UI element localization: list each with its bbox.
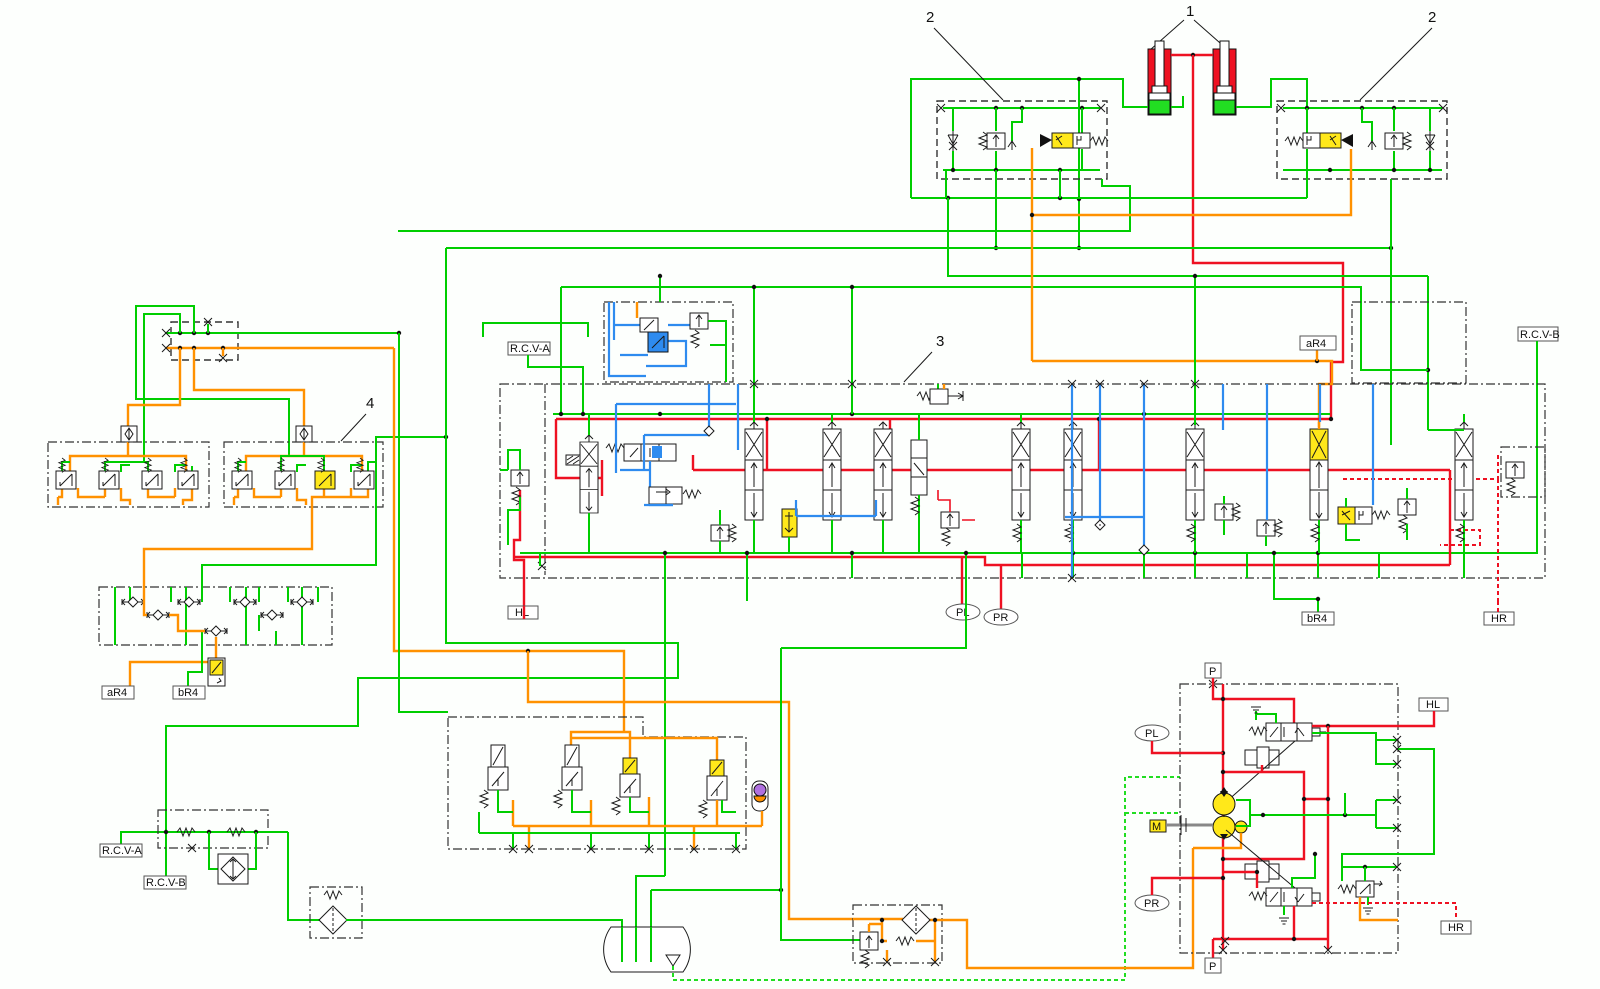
svg-text:aR4: aR4 xyxy=(1306,338,1326,350)
svg-text:4: 4 xyxy=(366,395,374,412)
wire orange pilot pump xyxy=(1193,833,1241,848)
pilot piston lower xyxy=(1226,830,1295,888)
X marks top border xyxy=(1068,380,1148,582)
pilot valve G1 xyxy=(56,458,76,489)
restrictor F1b xyxy=(324,891,342,899)
solenoid box xyxy=(448,717,746,849)
wire green vert x561 xyxy=(560,287,562,414)
wire orange rail y215 xyxy=(1032,148,1351,361)
X red bottom border xyxy=(1219,946,1227,954)
red pr riser xyxy=(1000,565,1002,610)
pump case drain green xyxy=(1236,800,1376,826)
node orange rail dots xyxy=(178,346,182,350)
node x1079 xyxy=(1077,197,1081,201)
spool valve V9 xyxy=(1186,414,1204,553)
node green bus1 dots xyxy=(559,412,563,416)
wire green upper valve out xyxy=(1312,733,1397,740)
blue check small xyxy=(704,426,714,436)
svg-text:PR: PR xyxy=(1144,898,1159,910)
pilot valve G8 xyxy=(354,458,374,489)
pressure switch yellow xyxy=(208,658,225,686)
label 4 pointer xyxy=(341,395,374,441)
filter bypass xyxy=(882,920,939,966)
svg-text:R.C.V-A: R.C.V-A xyxy=(102,845,142,857)
node x1428 y370 xyxy=(1426,368,1430,372)
throttle X ends xyxy=(1277,104,1285,112)
node red pump xyxy=(1302,797,1306,801)
restrictor Z2 xyxy=(227,828,245,836)
sol valve S1 xyxy=(480,745,508,808)
wire green tank link left xyxy=(636,876,665,962)
wire red P top xyxy=(1213,678,1294,950)
green bus1 xyxy=(553,413,1330,415)
red right riser xyxy=(1449,470,1451,565)
label bR4 right xyxy=(1302,612,1334,625)
wire green box2L internals xyxy=(943,108,1100,170)
svg-text:HR: HR xyxy=(1491,613,1507,625)
blue check C1 xyxy=(1095,520,1105,530)
spool valve V5 xyxy=(874,422,892,553)
label aR4 top xyxy=(1300,336,1336,361)
blue pilot horizontals mid xyxy=(796,500,876,516)
label P top xyxy=(1205,663,1221,688)
pilot valve G7 yellow xyxy=(315,458,335,489)
node riser dots xyxy=(752,285,756,289)
node red dots xyxy=(765,417,769,421)
svg-text:R.C.V-B: R.C.V-B xyxy=(1520,329,1560,341)
wire green x781 riser xyxy=(780,648,782,890)
X border g4 xyxy=(1344,793,1346,815)
wire orange shuttle path xyxy=(130,587,216,686)
check valve CV1 xyxy=(948,131,958,151)
oval PL pump xyxy=(1135,725,1223,753)
svg-text:aR4: aR4 xyxy=(107,687,127,699)
filter relief xyxy=(860,924,882,968)
left subblock divider xyxy=(544,384,546,575)
wire red lower valve left xyxy=(1213,872,1294,958)
pilot pair valve V2 xyxy=(606,444,676,505)
shuttle S1 xyxy=(122,597,144,607)
pump upper xyxy=(1213,787,1235,815)
wire green vert x1428 xyxy=(1427,276,1429,430)
shuttle manifold greens xyxy=(115,587,318,645)
X marks sol box bottom xyxy=(509,845,740,853)
svg-text:R.C.V-B: R.C.V-B xyxy=(146,877,186,889)
node y890 xyxy=(779,888,783,892)
red bus C xyxy=(514,557,1450,565)
oval PR xyxy=(984,609,1018,625)
red pl riser xyxy=(961,557,963,606)
check box left xyxy=(121,426,137,442)
wire green y890 xyxy=(651,890,781,962)
spool valve V4 xyxy=(823,414,841,553)
spool valve V3 xyxy=(745,414,763,553)
wire green cyl1 cap xyxy=(911,79,1148,198)
pilot valve G2 xyxy=(99,458,119,489)
sol valve S2 xyxy=(554,745,582,808)
relief left sub xyxy=(500,450,529,545)
wire green x399 drop xyxy=(399,333,448,712)
svg-text:R.C.V-A: R.C.V-A xyxy=(510,343,550,355)
svg-text:HL: HL xyxy=(515,607,529,619)
node red top xyxy=(1221,697,1225,701)
shuttle S6 xyxy=(261,610,283,620)
X bottom border left xyxy=(538,562,546,570)
sol box green manifold xyxy=(479,790,740,849)
wire green loopA xyxy=(136,306,289,456)
wire green RCVB down xyxy=(1352,341,1537,553)
motor M xyxy=(1150,815,1224,835)
solenoid valve SV1 (yellow) xyxy=(1040,133,1108,148)
spool valve V7 xyxy=(1012,414,1030,553)
wire green rcva entry xyxy=(528,355,583,414)
shuttle S7 xyxy=(205,626,227,636)
wire orange check to rgroup xyxy=(303,442,305,456)
relief V6b xyxy=(938,490,975,546)
pilot group box L xyxy=(48,442,209,507)
X stub bottom xyxy=(219,348,227,362)
wire orange y361 xyxy=(1032,361,1332,427)
check valve CV4 xyxy=(1368,141,1376,150)
node g loop xyxy=(1363,865,1367,869)
wire orange main drop x394 xyxy=(394,348,624,732)
relief valve RV1 xyxy=(979,132,1005,150)
wire green rail y248 xyxy=(446,247,1391,249)
relief pair yellow RP1 xyxy=(1338,498,1390,540)
wire green rcv rail xyxy=(166,831,288,833)
svg-text:1: 1 xyxy=(1186,3,1194,20)
wire green box2L top rail xyxy=(943,107,1100,109)
throttle X orange rail xyxy=(162,344,170,352)
wire green rail y287 xyxy=(561,287,1428,370)
pilot subbox orange xyxy=(636,302,638,318)
shuttle S3 xyxy=(234,597,256,607)
wire green loopB xyxy=(144,314,180,462)
filter F1 xyxy=(319,906,347,934)
pilot valve G6 xyxy=(275,458,295,489)
pump lower xyxy=(1213,816,1235,840)
node bottom dots xyxy=(994,168,998,172)
restrictor box RCV xyxy=(158,810,268,848)
shuttle S5 xyxy=(147,610,169,620)
shuttle S2 xyxy=(178,597,200,607)
wire green port rail y333 xyxy=(165,332,399,334)
wire green box2L drop mid xyxy=(1059,170,1061,198)
check yellow Vc xyxy=(782,509,797,553)
label RCV-A bottom xyxy=(100,832,166,857)
svg-text:bR4: bR4 xyxy=(178,687,198,699)
unloading drain xyxy=(1363,897,1373,914)
pilot subbox relief xyxy=(690,313,708,348)
label RCV-B right xyxy=(1518,327,1560,341)
valve V6 xyxy=(911,414,927,553)
blue pilot verticals left xyxy=(616,384,738,505)
label HL pump xyxy=(1312,698,1448,726)
unloading valve xyxy=(1338,867,1382,897)
wire red right riser xyxy=(1294,726,1328,950)
wire green x781 to filter xyxy=(781,890,860,940)
solenoid valve SV2 (yellow mirrored) xyxy=(1285,133,1353,148)
wire orange unload xyxy=(1360,897,1398,920)
label 2 right pointer xyxy=(1360,9,1436,100)
spool valve V11 xyxy=(1428,414,1473,553)
sol valve S4 yellow xyxy=(699,760,727,818)
orange filter box xyxy=(853,905,942,963)
svg-text:bR4: bR4 xyxy=(1307,613,1327,625)
sol valve S3 yellow xyxy=(612,758,640,815)
wire green box2R top rail xyxy=(1283,107,1442,109)
wire green box2L drop left xyxy=(945,170,947,198)
wire orange check to group xyxy=(127,442,129,456)
node rail198 xyxy=(946,196,950,200)
cylinder CYL2 (right) xyxy=(1213,41,1236,115)
node bR4 xyxy=(1316,597,1320,601)
wire green risers into block xyxy=(754,276,1195,425)
accumulator xyxy=(752,781,768,811)
node filter dots xyxy=(880,918,884,922)
red bus A left drop xyxy=(556,419,602,496)
relief sub right xyxy=(1506,462,1524,496)
filter box low xyxy=(310,887,362,938)
X border g5 g6 xyxy=(1393,745,1401,871)
tank xyxy=(604,927,691,972)
wire green cyl2 cap right xyxy=(1236,79,1307,108)
label 3 pointer xyxy=(904,333,944,382)
red hatched HR bottom xyxy=(1312,903,1456,920)
wire green cyl2 cap xyxy=(1171,96,1183,107)
top-left port box xyxy=(171,322,238,360)
small valve V2b xyxy=(649,487,701,504)
wire green u-stub xyxy=(483,323,588,337)
wire orange to left group xyxy=(128,348,180,427)
wire green box2R internals xyxy=(1283,108,1442,170)
label HR bottom xyxy=(1441,921,1471,934)
wire green rail y198 xyxy=(911,197,1307,199)
node bottom dots R xyxy=(1392,168,1396,172)
svg-text:HR: HR xyxy=(1448,922,1464,934)
sol box orange manifold top xyxy=(571,732,717,760)
oval PR pump xyxy=(1135,878,1223,911)
node pr xyxy=(1221,876,1225,880)
node x446 y437 xyxy=(444,435,448,439)
relief top component xyxy=(917,384,963,404)
pilot valve G4 xyxy=(178,458,198,489)
pilot subbox blue circuit xyxy=(609,302,699,376)
wire orange y702 xyxy=(528,651,853,919)
red inter risers xyxy=(693,419,1099,500)
pilot group box R xyxy=(224,442,383,507)
filter diamond xyxy=(853,848,1193,968)
red hatched HR xyxy=(1343,455,1498,612)
node hl red xyxy=(1326,724,1330,728)
node green rail dots xyxy=(178,331,182,335)
wire green hatched bottom xyxy=(673,777,1180,980)
node rail dots xyxy=(994,106,998,110)
wire green rail y228 xyxy=(398,179,1130,231)
spool valve V8 xyxy=(1064,422,1082,553)
node orange aR4 xyxy=(1315,359,1319,363)
node rail dots R xyxy=(1305,106,1309,110)
label bR4 bottom xyxy=(173,686,205,699)
label P bottom xyxy=(1205,937,1229,973)
valve box 2 right xyxy=(1277,101,1447,179)
check valve CV3 xyxy=(1425,131,1435,151)
wire orange port rail y348 xyxy=(166,347,394,349)
node orange y215 xyxy=(1030,213,1034,217)
svg-text:PL: PL xyxy=(956,607,969,619)
label 2 left pointer xyxy=(926,9,1003,100)
svg-text:PR: PR xyxy=(993,612,1008,624)
X red right bottom xyxy=(1324,946,1332,954)
throttle X green rail xyxy=(162,329,170,337)
svg-text:PL: PL xyxy=(1145,728,1158,740)
wire green drop x995 xyxy=(995,170,997,248)
wire red pumps xyxy=(1224,765,1328,859)
shuttle valve box xyxy=(99,587,332,645)
green bR4 link xyxy=(1274,580,1318,612)
pilot subbox valve small xyxy=(640,318,658,332)
svg-text:3: 3 xyxy=(936,333,944,350)
blue pilot verticals right xyxy=(1065,384,1373,578)
node rcv dots xyxy=(164,830,168,834)
label HL tag xyxy=(523,606,525,619)
green bus2 drops xyxy=(540,553,1464,876)
wire green right loop xyxy=(1342,749,1434,881)
X stub top xyxy=(204,318,212,333)
label RCV-B bottom xyxy=(144,876,186,889)
main valve block box 3 xyxy=(500,384,1545,578)
oval PL xyxy=(946,604,980,620)
red bus B xyxy=(693,469,1450,471)
blue check C2 xyxy=(1139,545,1149,555)
wire green lower valve top xyxy=(1292,854,1315,888)
X border crossings xyxy=(750,380,758,388)
node cyl junction xyxy=(1191,53,1195,57)
svg-text:2: 2 xyxy=(1428,9,1436,26)
relief RVm4 xyxy=(1398,488,1416,540)
pilot valve G5 xyxy=(232,458,252,489)
label HL left xyxy=(508,490,538,619)
wire green rail y276 xyxy=(948,198,1428,276)
wire red main down xyxy=(1193,55,1343,421)
svg-text:P: P xyxy=(1209,961,1216,973)
cooler box xyxy=(209,832,256,884)
wire green bR4 xyxy=(188,645,202,686)
wire green to filter xyxy=(288,832,320,920)
green bus2 tank xyxy=(520,552,1352,554)
lower regulator valve xyxy=(1249,888,1320,906)
svg-text:HL: HL xyxy=(1426,699,1440,711)
wire green rail198 right up xyxy=(1306,170,1308,198)
svg-text:M: M xyxy=(1152,821,1161,833)
pilot subbox green xyxy=(708,321,726,382)
sol box orange lower manifold xyxy=(513,797,762,849)
node case drain xyxy=(1261,813,1265,817)
group L manifolds xyxy=(58,456,192,505)
wire orange group to shuttle xyxy=(144,507,312,587)
pump unit box xyxy=(1180,684,1398,953)
node orange x528 xyxy=(526,649,530,653)
shuttle S4 xyxy=(291,597,313,607)
wire green staircase x446 xyxy=(166,248,678,876)
pilot subbox top xyxy=(604,302,733,382)
relief RVm2 xyxy=(1215,496,1240,535)
label HR mid xyxy=(1484,612,1514,625)
node red lower xyxy=(1255,870,1259,874)
X border g1 xyxy=(1393,736,1401,744)
wire green pilot drops xyxy=(659,276,661,302)
relief RVm1 xyxy=(711,510,736,553)
label aR4 bottom xyxy=(102,686,134,699)
relief valve RV2 xyxy=(1385,132,1411,150)
wire green vert x1391 xyxy=(1390,179,1392,445)
wire green drop x1079 xyxy=(1078,79,1080,248)
pilot valve G3 xyxy=(142,458,162,489)
top right subbox xyxy=(1352,302,1466,383)
check box right xyxy=(296,426,312,442)
node x995 rail248 xyxy=(994,246,998,250)
spool valve V1 hatched xyxy=(566,414,598,553)
valve box 2 left xyxy=(937,101,1107,179)
group R manifolds xyxy=(234,456,376,508)
X border g2 g3 xyxy=(1376,740,1401,832)
node green bus2 dots xyxy=(663,551,667,555)
pilot pump small xyxy=(1235,821,1247,833)
lower drain green xyxy=(1279,906,1289,924)
svg-text:2: 2 xyxy=(926,9,934,26)
label RCV-A top xyxy=(508,342,550,355)
pilot piston upper xyxy=(1226,741,1295,802)
cylinder CYL1 (left) xyxy=(1148,41,1171,115)
upper regulator valve xyxy=(1249,723,1326,741)
check valve CV2 xyxy=(1008,141,1016,150)
throttle X left end xyxy=(937,104,945,112)
label 1 pointer xyxy=(1150,3,1228,50)
node rail248 right xyxy=(1389,246,1393,250)
wire red cylinder link xyxy=(1171,54,1213,56)
wire green shuttle up right xyxy=(202,437,446,587)
wire orange to right group xyxy=(194,348,304,427)
spool valve V10 yellow xyxy=(1310,422,1328,553)
sub box right inner xyxy=(1501,447,1545,497)
green riser to y648 xyxy=(781,578,966,648)
relief RVm3 xyxy=(1257,519,1282,546)
red bus A xyxy=(556,418,1331,420)
upper drain green xyxy=(1251,707,1276,723)
red hatched stub xyxy=(1440,530,1480,545)
svg-text:P: P xyxy=(1209,666,1216,678)
wire green filter to tank xyxy=(346,920,622,962)
restrictor Z1 xyxy=(177,828,196,852)
